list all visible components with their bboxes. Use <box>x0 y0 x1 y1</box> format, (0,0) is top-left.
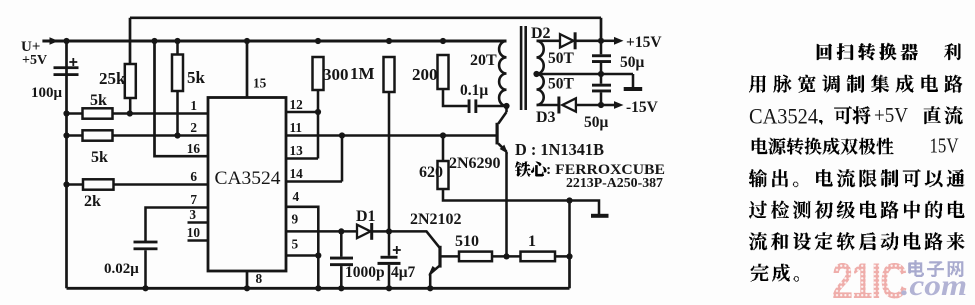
junction pin12 300 <box>315 109 321 115</box>
svg-text:510: 510 <box>455 233 479 250</box>
svg-text:200: 200 <box>412 65 438 84</box>
junction 4u7 bottom rail <box>386 285 392 291</box>
capacitor 50u lower plates <box>592 84 611 87</box>
svg-text:25k: 25k <box>99 69 126 88</box>
svg-text:2N6290: 2N6290 <box>449 155 501 172</box>
junction pin11 620 <box>440 132 446 138</box>
node U+ input arrow <box>50 37 59 44</box>
svg-text:1000p: 1000p <box>345 264 385 281</box>
resistor 510 <box>459 252 492 262</box>
svg-text:620: 620 <box>419 164 443 181</box>
text line 4 <box>752 138 768 154</box>
svg-text:50μ: 50μ <box>584 114 609 131</box>
junction 1 right node <box>566 253 572 259</box>
svg-text:2213P-A250-387: 2213P-A250-387 <box>566 176 663 191</box>
svg-text:12: 12 <box>290 97 304 112</box>
svg-text:2k: 2k <box>84 193 101 210</box>
svg-text:1: 1 <box>190 98 197 113</box>
wire 1000p bottom lead <box>340 266 343 288</box>
svg-text:300: 300 <box>323 65 349 84</box>
resistor 200 <box>438 55 449 89</box>
wire pin14 stub <box>286 180 342 183</box>
wire 4u7 bottom lead <box>388 265 391 288</box>
wire Q1 collector diagonal <box>498 112 506 124</box>
svg-text:0.1μ: 0.1μ <box>460 82 488 99</box>
node +15V arrow <box>614 37 624 45</box>
wire Q2 collector to 510 <box>440 255 459 258</box>
junction center tap <box>533 71 539 77</box>
svg-text:CA3524: CA3524 <box>749 104 818 129</box>
wire pin12 to pin13 <box>317 112 320 159</box>
wire 510 to 1 <box>492 255 521 258</box>
junction 0.02u bottom rail <box>142 285 148 291</box>
wire 0.1u to collector node <box>477 105 506 108</box>
capacitor 4u7 plates <box>381 256 398 259</box>
junction pin4 pin5 <box>315 252 321 258</box>
wire D2 to +15V node <box>576 40 601 43</box>
junction 5k vertical bottom <box>174 132 180 138</box>
transistor Q1 2N6290 <box>496 123 499 145</box>
capacitor 0.1u plates <box>468 99 471 113</box>
resistor 5k (upper horizontal) <box>83 108 113 118</box>
svg-text:5k: 5k <box>91 149 108 166</box>
junction left rail pin6 line <box>63 181 69 187</box>
wire bottom rail right riser <box>568 256 571 288</box>
wire 620 to sense top <box>443 189 570 201</box>
transistor Q2 2N2102 <box>438 246 441 268</box>
wire pin5 stub <box>286 254 318 257</box>
wire -15V arrow lead <box>601 104 615 107</box>
junction rail 200 <box>440 38 446 44</box>
resistor 2k <box>83 179 114 189</box>
wire pin14 riser <box>341 136 344 182</box>
svg-text:5k: 5k <box>90 92 107 109</box>
wire 1000p top lead <box>340 231 343 256</box>
wire +5V main rail <box>42 40 506 43</box>
wire Q1 emitter drop <box>505 152 508 257</box>
junction rail to pin16 <box>151 38 157 44</box>
svg-text:5k: 5k <box>187 68 206 87</box>
svg-text:20T: 20T <box>470 52 497 69</box>
junction Q1 collector node <box>503 103 509 109</box>
wire +15V arrow lead <box>601 40 615 43</box>
svg-text:-15V: -15V <box>626 99 659 116</box>
capacitor 1000p plates <box>330 257 353 260</box>
wire sense riser <box>568 201 571 257</box>
wire pin6 line <box>67 183 209 186</box>
svg-text:0.02μ: 0.02μ <box>104 261 139 277</box>
svg-text:11: 11 <box>290 120 303 135</box>
wire to ground 2 <box>570 201 600 215</box>
wire pin7 to cap <box>146 208 209 242</box>
capacitor 100u plates <box>54 66 79 69</box>
wire secondary bottom to D3 <box>537 104 559 107</box>
svg-text:14: 14 <box>290 166 304 181</box>
svg-text:D1: D1 <box>356 208 376 225</box>
wire pin5 to rail <box>317 256 320 289</box>
resistor 1M <box>384 57 395 92</box>
svg-text:+5V: +5V <box>874 103 908 127</box>
resistor 5k (lower horizontal) <box>83 130 113 140</box>
wire center to 50u lower <box>600 74 603 84</box>
svg-text:16: 16 <box>187 141 201 156</box>
wire +15V to 50u <box>600 41 603 55</box>
wire 25k to pin1 <box>129 98 132 114</box>
wire 300 bottom <box>317 57 320 112</box>
diode D2 <box>560 34 574 47</box>
wire pin2 line <box>67 134 209 137</box>
svg-text:15: 15 <box>253 76 267 91</box>
svg-text:D3: D3 <box>536 109 556 126</box>
svg-text:7: 7 <box>190 192 197 207</box>
junction emitter sense node <box>503 253 509 259</box>
svg-text:1: 1 <box>528 233 536 250</box>
svg-text:15V: 15V <box>930 134 959 158</box>
ground (near 1 ohm) <box>591 214 609 218</box>
resistor 300 <box>313 57 324 90</box>
junction 1000p top <box>338 228 344 234</box>
transformer T1 core <box>520 26 523 110</box>
svg-text:50T: 50T <box>548 76 575 93</box>
svg-text:8: 8 <box>256 271 263 286</box>
wire D1 to node <box>373 230 389 233</box>
wire left rail <box>65 41 68 288</box>
junction +15V node <box>598 38 604 44</box>
diode D1 <box>357 225 371 238</box>
wire top feedback line <box>130 16 601 19</box>
junction pin8 bottom rail <box>244 285 250 291</box>
junction pin5 bottom rail <box>315 285 321 291</box>
wire pin10 stub <box>188 239 209 242</box>
wire 620 top lead <box>442 136 445 162</box>
resistor 25k <box>125 64 136 98</box>
text line 8 <box>751 264 769 282</box>
wire pin4 to pin5 node <box>286 207 318 256</box>
wire 50u lower to -15V line <box>600 92 603 105</box>
junction center 50u <box>598 71 604 77</box>
wire D3 to -15V node <box>576 104 601 107</box>
node -15V arrow <box>614 101 624 109</box>
text line 2 <box>749 75 766 92</box>
svg-text:50μ: 50μ <box>620 54 645 71</box>
inductor T1 secondary lower 50T <box>537 74 544 105</box>
wire 5k vertical branch <box>176 41 179 136</box>
wire 1M to soft-start node <box>388 57 391 231</box>
op-amp U1 CA3524 body <box>208 98 286 272</box>
junction left rail pin1 line <box>63 110 69 116</box>
svg-text:6: 6 <box>190 169 197 184</box>
wire feedback to 25k <box>129 18 132 65</box>
svg-text:3: 3 <box>189 207 196 222</box>
junction U+ node <box>63 38 69 44</box>
wire pin12 stub <box>286 111 318 114</box>
wire pin3 stub <box>188 221 209 224</box>
wire pin13 stub <box>286 157 318 160</box>
wire rail to pin16 <box>155 41 209 156</box>
inductor T1 secondary upper 50T <box>537 41 544 74</box>
junction rail 300 <box>315 38 321 44</box>
wire pin11 to Q1 base <box>286 134 497 137</box>
junction rail to pin15 <box>244 38 250 44</box>
resistor 1 <box>521 252 556 262</box>
capacitor 0.02u plates <box>134 241 158 244</box>
wire 200 to 0.1u <box>443 89 468 106</box>
svg-text:100μ: 100μ <box>31 85 63 101</box>
resistor 5k (vertical) <box>172 55 183 92</box>
junction pin11 pin14 <box>339 132 345 138</box>
svg-text:10: 10 <box>187 225 201 240</box>
text line 5 <box>749 169 767 187</box>
svg-text:+5V: +5V <box>22 53 47 68</box>
capacitor 50u upper plates <box>592 54 611 57</box>
wire pin9 line <box>286 230 357 233</box>
wire 1 to riser <box>555 255 570 258</box>
ground (center tap) <box>624 87 643 91</box>
svg-text:.com: .com <box>901 269 967 302</box>
junction 1000p bottom rail <box>338 285 344 291</box>
junction left rail pin2 line <box>63 132 69 138</box>
svg-text:CA3524: CA3524 <box>215 169 281 189</box>
junction soft-start node <box>386 228 392 234</box>
wire rail to pin15 <box>246 41 249 97</box>
junction sense top node <box>566 197 572 203</box>
text paragraph title line 1 <box>817 44 832 60</box>
junction 5k vertical top <box>174 38 180 44</box>
wire to ground 1 <box>632 74 635 87</box>
label core FERROXCUBE <box>515 162 531 177</box>
svg-text:+15V: +15V <box>626 34 662 51</box>
watermark dianziwang <box>908 260 924 277</box>
junction rail 1M <box>386 38 392 44</box>
resistor 620 <box>438 161 449 189</box>
text line 6 <box>749 201 767 219</box>
wire 0.02u to ground rail <box>144 250 147 288</box>
wire bottom rail <box>67 287 570 290</box>
svg-text:D2: D2 <box>531 25 551 42</box>
wire pin1 line <box>67 112 209 115</box>
svg-text:4: 4 <box>293 189 300 204</box>
wire pin8 to rail <box>246 271 249 288</box>
wire Q1 collector drop <box>505 106 508 112</box>
svg-text:4μ7: 4μ7 <box>391 264 416 281</box>
svg-text:13: 13 <box>290 143 304 158</box>
text line 7 <box>749 232 767 250</box>
svg-text:D : 1N1341B: D : 1N1341B <box>515 140 604 159</box>
svg-text:2: 2 <box>190 120 197 135</box>
svg-text:1M: 1M <box>350 64 375 83</box>
svg-text:21IC: 21IC <box>832 253 907 305</box>
wire Q2 emitter drop <box>429 273 432 288</box>
wire Q2 emitter diagonal <box>430 265 440 273</box>
wire 50u to center line <box>600 63 603 74</box>
wire center tap line <box>537 73 634 76</box>
junction -15V node <box>598 102 604 108</box>
svg-text:2N2102: 2N2102 <box>410 211 462 228</box>
svg-text:9: 9 <box>292 212 299 227</box>
wire Q1 emitter diagonal <box>498 144 506 152</box>
inductor T1 primary 20T <box>499 41 506 106</box>
wire feedback drop to +15V node <box>600 18 603 41</box>
svg-text:5: 5 <box>292 237 299 252</box>
wire secondary top to D2 <box>537 40 560 43</box>
svg-text:50T: 50T <box>548 50 575 67</box>
junction Q2 emitter rail <box>427 285 433 291</box>
junction 25k bottom <box>127 110 133 116</box>
wire 4u7 top lead <box>388 231 391 255</box>
wire Q2 base lead <box>389 231 440 248</box>
diode D3 <box>557 97 560 114</box>
